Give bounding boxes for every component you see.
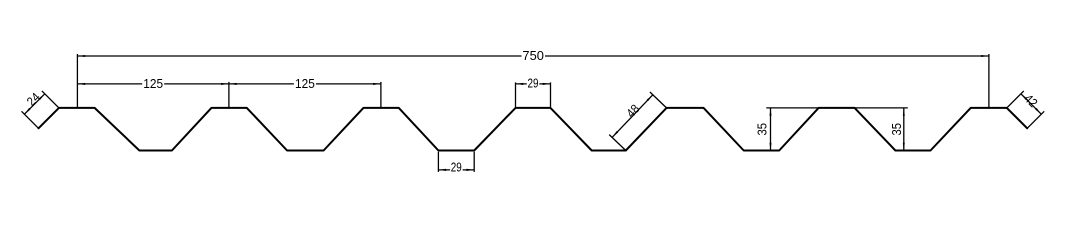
dimension 48 slope length xyxy=(609,92,666,151)
dimension 35 first (rib height) xyxy=(755,108,818,151)
dimension 29 bottom valley xyxy=(438,152,474,175)
profile sheet outline xyxy=(39,108,1028,151)
svg-text:29: 29 xyxy=(451,161,462,175)
extension line right (750) xyxy=(988,54,990,108)
svg-text:35: 35 xyxy=(755,123,769,136)
svg-text:125: 125 xyxy=(143,77,163,91)
dimension 125 first xyxy=(77,77,229,91)
svg-text:35: 35 xyxy=(890,123,904,136)
extension line left (750/125) xyxy=(76,54,78,108)
svg-text:125: 125 xyxy=(295,77,315,91)
dimension 750 xyxy=(77,49,989,63)
svg-text:24: 24 xyxy=(24,90,43,109)
svg-text:48: 48 xyxy=(624,102,643,121)
svg-text:42: 42 xyxy=(1021,91,1040,110)
dimension 42 right edge tab xyxy=(1007,91,1044,128)
dimension 24 left edge tab xyxy=(22,90,59,128)
extension line mid (125/125) xyxy=(228,82,230,108)
extension line 125 end xyxy=(380,82,382,108)
dimension 125 second xyxy=(229,77,381,91)
dimension 35 second (rib height) xyxy=(855,108,908,151)
svg-text:29: 29 xyxy=(528,76,539,90)
svg-text:750: 750 xyxy=(522,49,544,63)
dimension 29 top rib xyxy=(516,76,551,107)
